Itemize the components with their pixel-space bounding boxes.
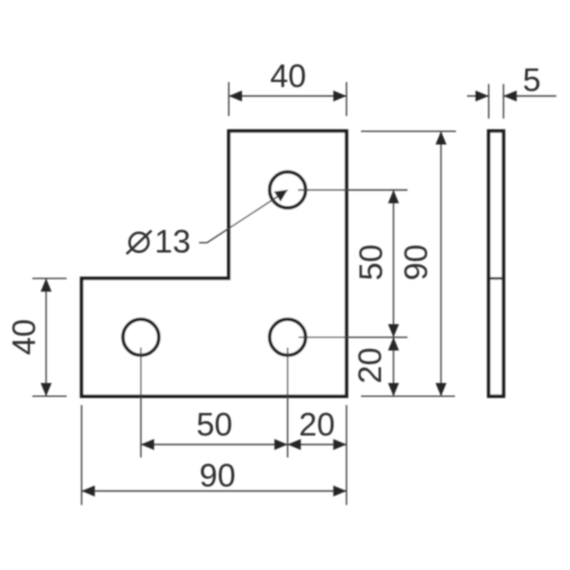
svg-text:13: 13 <box>155 224 191 260</box>
svg-text:20: 20 <box>299 407 335 443</box>
svg-text:50: 50 <box>196 407 232 443</box>
svg-text:5: 5 <box>523 62 541 98</box>
svg-text:40: 40 <box>270 58 306 94</box>
svg-text:40: 40 <box>6 319 42 355</box>
svg-text:20: 20 <box>352 347 388 383</box>
svg-text:50: 50 <box>353 244 389 280</box>
svg-text:90: 90 <box>199 458 235 494</box>
svg-text:90: 90 <box>398 244 434 280</box>
